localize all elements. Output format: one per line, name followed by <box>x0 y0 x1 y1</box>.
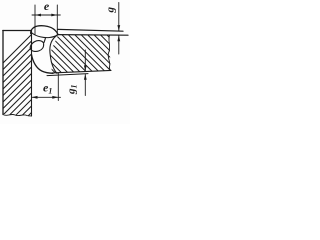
left plate bottom break line (wavy) <box>3 114 32 116</box>
horizontal plate hatching <box>0 0 198 120</box>
weld bead top outline <box>31 26 58 35</box>
inner fusion arc under bead <box>32 33 57 38</box>
dimension g1 <box>84 50 86 96</box>
dimension g <box>58 3 123 55</box>
right fusion S-curve (bevel) <box>50 35 57 73</box>
dimension e <box>32 5 60 35</box>
horizontal plate bottom face <box>52 70 111 73</box>
g1 root level tick line <box>47 74 88 76</box>
horizontal plate top face <box>58 34 129 37</box>
svg-text:e: e <box>44 0 50 13</box>
left vertical plate outline <box>3 30 32 32</box>
svg-text:g: g <box>104 6 116 13</box>
dimension e1 <box>32 73 61 100</box>
root swirl <box>30 38 45 51</box>
horizontal plate right break edge (wavy) <box>108 35 110 70</box>
left plate hatching <box>0 0 157 120</box>
svg-text:e1: e1 <box>43 81 52 96</box>
svg-text:g1: g1 <box>66 85 79 96</box>
root bead curve <box>32 55 54 74</box>
